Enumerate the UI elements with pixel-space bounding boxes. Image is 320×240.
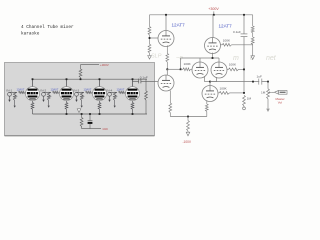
grid resistor R4 [221,43,253,46]
grid resistor Rg2 [53,91,61,93]
C-out value label [140,76,148,80]
svg-text:IN-3: IN-3 [73,88,79,92]
cathode resistor R11 [188,101,208,117]
grid resistor R10 [243,95,246,109]
divider resistor R2 [148,35,151,56]
svg-text:100K: 100K [223,38,231,42]
svg-text:IN-2: IN-2 [40,88,46,92]
svg-text:0.1uF: 0.1uF [140,76,148,80]
-100V arrow [186,132,190,136]
tube V2a [93,78,107,100]
cathode join U3 U4 [205,76,217,82]
cathode resistor R12 [169,91,189,118]
svg-text:m: m [233,55,239,62]
pot VR2 [47,92,51,108]
svg-text:Vol: Vol [278,100,283,104]
plate resistor R9 [218,92,245,95]
master pot VR5 [267,81,272,109]
tube U3 [192,62,208,78]
tube U1 12AT7 [158,14,174,47]
cathode resistor R3 [166,45,169,69]
bypass capacitor C-K (box) [88,114,93,129]
svg-text:100K: 100K [229,63,237,67]
grid resistor Rg1 [19,91,27,93]
svg-text:12AX7: 12AX7 [84,87,92,91]
svg-text:IN-4: IN-4 [106,88,112,92]
title text [21,25,74,36]
svg-text:+300V: +300V [100,63,109,67]
svg-text:4 Channel Tube mixer: 4 Channel Tube mixer [21,25,74,30]
jack J3 [75,92,84,102]
dropper resistor R-B+ [79,65,99,81]
tube V2b [126,78,140,100]
tube V1a [26,78,40,100]
label 12AX7 (4) [117,87,125,91]
svg-text:12AT7: 12AT7 [172,22,186,27]
svg-text:+300V: +300V [208,7,219,11]
svg-text:-100V: -100V [183,140,192,144]
svg-text:12AX7: 12AX7 [117,87,125,91]
pot VR3 [80,92,84,108]
R8 value [229,63,237,67]
ground master [266,109,270,112]
grid wire U5in [155,80,159,82]
GND label (box) [103,128,109,131]
cathode resistor Rk4 [131,101,134,114]
coupling cap C6 1uF [252,79,262,85]
bus junction dots [66,113,134,115]
tube U2 12AT7 [205,15,221,54]
label 12AT7 U2 [219,24,233,29]
divider resistor R1 [148,15,151,35]
C6 value [257,74,262,78]
bias resistor R13 [187,117,190,133]
grid wire U1 [149,37,158,39]
output connector [272,91,287,95]
grid resistor Rg3 [86,91,94,93]
cascode wire U2 cathode [181,53,219,70]
svg-text:12AX7: 12AX7 [51,87,59,91]
ground arrow below bus [77,109,81,113]
jack J2 [42,92,51,102]
svg-text:IN-1: IN-1 [6,88,12,92]
C5 value [233,30,241,34]
cathode resistor Rk3 [98,101,101,114]
ground bus (box) [33,113,148,115]
plate resistor R8 [227,68,245,71]
+300V label [208,7,219,16]
VR5 value 1M [261,90,266,94]
mixer enclosure box [5,63,155,136]
R10 value [247,96,252,100]
svg-text:1M: 1M [247,96,252,100]
pot VR4 [113,92,117,108]
svg-text:1uF: 1uF [257,74,262,78]
tube V1b [60,78,74,100]
jack J1 [8,92,17,102]
B+ bus (box) [33,78,148,80]
+300V label (box) [100,63,109,67]
ground arrow left chain [148,56,152,60]
label 12AX7 (2) [51,87,59,91]
node plate U1k [166,68,181,75]
cathode resistor Rk2 [65,101,68,114]
watermark [151,54,277,63]
label 12AX7 (1) [17,87,25,91]
tube U6 [158,75,174,91]
ground arrow right chain [251,56,255,60]
jack J4 [108,92,117,102]
tube U5 [202,82,218,102]
+300V rail [150,14,253,16]
svg-text:100K: 100K [184,62,192,66]
R9 value [220,87,228,91]
output coupling capacitor C-out (box) [133,79,159,84]
svg-text:karaoke: karaoke [21,31,40,36]
divider resistor R5 [251,15,254,33]
R4 value [223,38,231,42]
svg-text:~e: ~e [176,56,184,62]
svg-text:1M: 1M [261,90,266,94]
svg-text:12AT7: 12AT7 [219,24,233,29]
R7 value [184,62,192,66]
svg-text:0.1uF: 0.1uF [233,30,241,34]
wire to master [210,81,268,83]
svg-text:SLP: SLP [151,54,162,60]
tube U4 [211,62,227,78]
label 12AX7 (3) [84,87,92,91]
bias resistor R-K (box) [80,114,101,129]
extra resistor R-out (box right) [145,79,148,114]
pot VR1 [13,92,17,108]
svg-text:100K: 100K [220,87,228,91]
svg-text:GND: GND [103,128,109,131]
cathode resistor Rk1 [31,101,34,114]
-100V label [183,140,192,144]
label 12AT7 U1 [172,22,186,27]
coupling cap C5 0.1uF [241,14,248,93]
grid resistor R7 [181,68,192,71]
svg-text:12AX7: 12AX7 [17,87,25,91]
master vol label [276,97,285,105]
svg-text:net: net [266,55,277,62]
grid resistor Rg4 [119,91,127,93]
divider resistor R6 [251,33,254,56]
